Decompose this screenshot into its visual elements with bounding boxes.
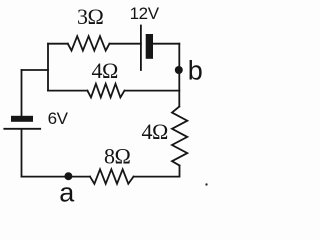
wire middle branch left [48, 90, 87, 92]
svg-text:4Ω: 4Ω [92, 58, 119, 83]
wire top branch right [109, 43, 140, 45]
resistor R1 3ohm [68, 36, 110, 50]
wire top branch left [48, 43, 68, 45]
svg-text:8Ω: 8Ω [104, 144, 131, 169]
svg-text:b: b [188, 56, 203, 86]
wire connector [22, 69, 49, 71]
svg-text:6V: 6V [48, 109, 69, 128]
battery V2 6V thin plate [4, 128, 40, 130]
wire middle branch right [125, 90, 180, 92]
battery V1 12V thick plate [146, 34, 153, 59]
resistor R2 4ohm vertical [172, 107, 187, 166]
wire battery to right rail [153, 43, 179, 45]
svg-text:4Ω: 4Ω [142, 119, 169, 144]
svg-text:12V: 12V [130, 4, 160, 23]
battery V2 6V thick plate [11, 116, 33, 122]
battery V1 12V thin plate [140, 26, 142, 71]
node a [64, 172, 72, 180]
wire right rail top [178, 44, 180, 107]
node b [175, 66, 183, 74]
svg-text:3Ω: 3Ω [77, 4, 104, 29]
resistor R4 4ohm middle [87, 84, 124, 98]
svg-text:a: a [59, 177, 75, 207]
wire left rail top [21, 70, 23, 116]
wire right rail bottom [134, 166, 180, 177]
resistor R3 8ohm [90, 169, 134, 184]
wire junction vertical [47, 44, 49, 91]
speck artifact [205, 183, 207, 185]
wire left rail bottom [21, 129, 23, 176]
wire bottom left [22, 176, 91, 178]
